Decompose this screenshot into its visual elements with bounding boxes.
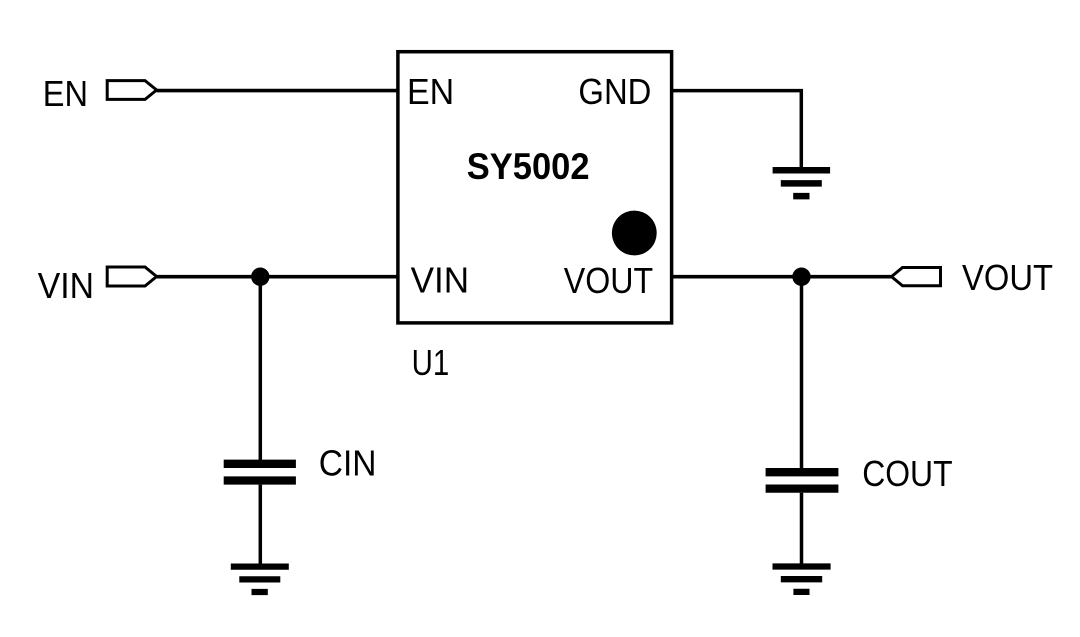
- wire VIN port to U1 VIN pin: [157, 275, 398, 279]
- IC U1 body (SY5002 box): [398, 52, 672, 323]
- svg-text:EN: EN: [407, 71, 454, 112]
- svg-text:EN: EN: [43, 73, 88, 114]
- wire U1 VOUT pin to VOUT port: [672, 275, 892, 279]
- ground symbol below CIN: [231, 567, 289, 592]
- svg-text:COUT: COUT: [862, 453, 952, 494]
- wire EN port to U1 EN pin: [157, 89, 398, 93]
- svg-text:GND: GND: [578, 71, 651, 112]
- wire COUT to ground: [800, 493, 804, 567]
- svg-text:VIN: VIN: [411, 260, 470, 301]
- wire CIN to ground: [259, 485, 263, 567]
- wire VIN node down to CIN: [259, 277, 263, 460]
- svg-text:VOUT: VOUT: [962, 257, 1053, 298]
- svg-text:VOUT: VOUT: [564, 260, 653, 301]
- ground symbol below COUT: [773, 567, 831, 592]
- capacitor COUT: [766, 472, 839, 488]
- svg-text:CIN: CIN: [319, 442, 377, 483]
- capacitor CIN: [224, 464, 296, 481]
- svg-text:U1: U1: [412, 342, 450, 383]
- port connector VIN: [107, 267, 156, 286]
- IC U1 pin-1 marker dot: [612, 211, 657, 256]
- svg-text:SY5002: SY5002: [467, 146, 590, 187]
- junction node VOUT/COUT: [792, 268, 810, 286]
- port connector EN: [107, 81, 156, 100]
- port connector VOUT: [892, 268, 941, 286]
- wire VOUT node down to COUT: [800, 277, 804, 469]
- ground symbol at GND pin: [773, 170, 831, 196]
- junction node VIN/CIN: [251, 268, 269, 286]
- wire U1 GND pin to ground: [672, 91, 802, 168]
- svg-text:VIN: VIN: [38, 265, 94, 306]
